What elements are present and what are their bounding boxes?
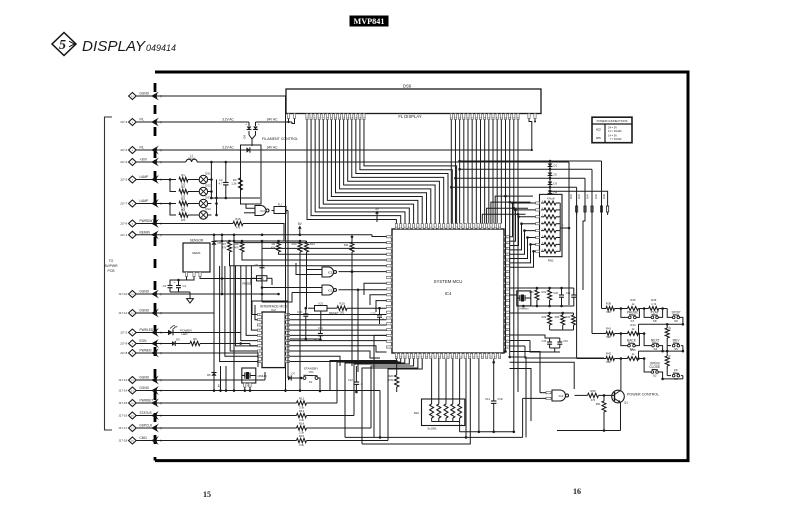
svg-text:93: 93 (390, 283, 392, 285)
svg-text:C16: C16 (563, 340, 568, 343)
resistor R14 3.3k DSPCLK (165, 359, 414, 435)
svg-text:0: 0 (390, 324, 391, 326)
svg-text:IC4: IC4 (445, 291, 452, 296)
lamp DS1 (199, 172, 211, 184)
svg-text:76: 76 (460, 227, 462, 229)
svg-text:47uF: 47uF (497, 398, 503, 401)
wire MCU right pin labels (0, 0, 1, 1)
svg-text:96: 96 (390, 300, 392, 302)
svg-text:65: 65 (413, 227, 415, 229)
svg-text:R38: R38 (606, 302, 612, 306)
connector J17-2 +30V (120, 158, 165, 167)
resistor R32 row2 (542, 313, 552, 330)
svg-text:24: 24 (447, 356, 449, 358)
svg-text:AN4: AN4 (587, 194, 590, 199)
svg-text:87: 87 (390, 248, 392, 250)
svg-text:C11: C11 (318, 326, 323, 330)
svg-text:64: 64 (408, 227, 410, 229)
svg-text:36: 36 (395, 356, 397, 358)
push button S6 FF (667, 369, 683, 382)
svg-text:1.7k: 1.7k (651, 302, 657, 306)
wire row2 rails (510, 312, 574, 330)
svg-text:79: 79 (473, 227, 475, 229)
svg-text:TO: TO (109, 259, 114, 263)
power rail 5V arrow near REMIN (298, 222, 303, 235)
svg-text:C14: C14 (485, 397, 490, 401)
svg-text:66: 66 (417, 227, 419, 229)
svg-text:AN6: AN6 (603, 194, 606, 199)
svg-text:J17-10: J17-10 (118, 292, 127, 296)
svg-text:18: 18 (473, 356, 475, 358)
svg-text:22: 22 (456, 356, 458, 358)
wire xtal area verticals (218, 366, 235, 392)
connector J17-16 STATUS (118, 411, 165, 420)
push button S3 BACK (621, 334, 640, 352)
svg-text:RN1: RN1 (548, 259, 554, 263)
svg-text:R50: R50 (590, 389, 596, 393)
capacitor C21 (566, 288, 576, 306)
svg-text:80: 80 (477, 227, 479, 229)
logic gate IC3 filament (244, 204, 274, 216)
svg-text:2: 2 (390, 335, 391, 337)
wire anode rows to diode ladder (451, 168, 592, 215)
svg-text:J17-16: J17-16 (118, 414, 127, 418)
svg-text:FILAMENT CONTROL: FILAMENT CONTROL (262, 137, 298, 141)
svg-text:R12: R12 (299, 397, 305, 401)
crystal X2 4MHz (510, 291, 531, 311)
resistor R11 47k (344, 236, 354, 273)
connector J17-12 DGND (118, 309, 214, 318)
svg-text:(): () (160, 148, 162, 152)
svg-text:D6: D6 (207, 373, 211, 377)
wire AN bundle verticals to keys (577, 212, 608, 359)
svg-text:J17-8: J17-8 (120, 351, 128, 355)
board frame border (155, 72, 688, 461)
svg-text:17: 17 (477, 356, 479, 358)
resistor R19 300 (327, 302, 387, 315)
svg-text:83: 83 (490, 227, 492, 229)
svg-text:J17-6: J17-6 (120, 222, 128, 226)
svg-text:68k: 68k (606, 310, 611, 314)
wire FIL upper 3.2V AC (165, 117, 249, 122)
svg-text:DS1: DS1 (205, 172, 211, 176)
wire upper junction rail y241 (214, 240, 307, 243)
wire IC2 left pin nest (220, 266, 288, 361)
svg-text:94: 94 (390, 289, 392, 291)
svg-text:(): () (160, 233, 162, 237)
resistor network RN1 47kx8 (536, 194, 570, 262)
svg-text:C5: C5 (255, 263, 259, 267)
wire 34V AC to display filament left (256, 117, 295, 123)
resistor R3 220 (179, 197, 199, 211)
svg-text:MVP841: MVP841 (354, 17, 385, 26)
resistor R31 column (542, 288, 552, 306)
svg-text:7 = DGND: 7 = DGND (610, 137, 622, 141)
svg-text:049414: 049414 (146, 43, 176, 53)
svg-text:FF: FF (674, 369, 678, 373)
svg-text:IC3: IC3 (328, 289, 333, 293)
power connections table (592, 117, 632, 143)
resistor R12b 3.3k PWRDET (165, 359, 401, 410)
svg-text:R34: R34 (566, 316, 571, 319)
svg-text:12: 12 (499, 356, 501, 358)
svg-text:R1: R1 (181, 173, 185, 177)
svg-text:20: 20 (464, 356, 466, 358)
svg-text:16: 16 (481, 356, 483, 358)
connector J17-18 CMD (118, 436, 165, 445)
svg-text:FIL: FIL (140, 146, 145, 150)
svg-text:35: 35 (400, 356, 402, 358)
wire MCU bottom left nest (330, 335, 418, 444)
wire MCU right to RN1 staircase (510, 202, 536, 268)
FL display filament pins right (528, 114, 536, 119)
wire FL right bus jogs to MCU top pins (482, 195, 533, 224)
capacitor C2 4.7uF (219, 161, 229, 200)
wire key row3 return (661, 378, 683, 381)
svg-text:R32: R32 (542, 316, 547, 319)
svg-text:R40: R40 (630, 298, 636, 302)
svg-text:DS2: DS2 (205, 184, 211, 188)
svg-text:R45: R45 (630, 348, 636, 352)
svg-text:15: 15 (486, 356, 488, 358)
wire DGND top rail (165, 96, 286, 392)
svg-text:SYSTEM MCU: SYSTEM MCU (434, 279, 463, 284)
svg-text:IC3: IC3 (260, 209, 265, 213)
svg-text:R31: R31 (542, 291, 547, 294)
svg-text:AN2: AN2 (570, 194, 573, 199)
svg-text:72: 72 (443, 227, 445, 229)
resistor R5 100 (190, 337, 258, 346)
svg-text:29: 29 (425, 356, 427, 358)
svg-text:J17-17: J17-17 (118, 426, 127, 430)
title DISPLAY 049414 (82, 38, 176, 55)
svg-text:1: 1 (390, 329, 391, 331)
wire LAMP branch lower (165, 202, 176, 215)
resistor R15 3.3k CMD (165, 359, 422, 448)
svg-text:IC3: IC3 (559, 394, 564, 398)
capacitor C15 (542, 338, 552, 348)
wire IC2 pin13 row (290, 360, 398, 363)
svg-text:89: 89 (390, 260, 392, 262)
interface MCU IC2 (258, 304, 290, 367)
FL display filament pins left (287, 114, 295, 119)
capacitor C11 (314, 326, 323, 342)
svg-text:IC2: IC2 (596, 128, 601, 132)
ground symbol sensor (170, 292, 193, 303)
diode D1 (548, 160, 558, 168)
resistor R30 column (529, 288, 539, 306)
svg-text:D7: D7 (292, 372, 296, 376)
wire PWRDWT row with resistor R16 (165, 217, 284, 241)
svg-text:DGND: DGND (140, 376, 150, 380)
system MCU IC4 (387, 224, 510, 359)
inductor L1 18UH (186, 154, 197, 163)
resistor R9 47k (271, 241, 281, 254)
svg-text:R47: R47 (669, 354, 672, 359)
svg-text:J17-9: J17-9 (120, 342, 128, 346)
resistor R34 row2 (566, 313, 576, 330)
lamp DS2 (199, 184, 211, 196)
lamp DS3 (199, 196, 211, 208)
connector J17-1 REMIN (120, 230, 165, 239)
lamp DS4 (199, 207, 211, 219)
capacitor C20 (553, 288, 564, 306)
switch S1 STANDBY ON (300, 367, 320, 392)
svg-text:95: 95 (390, 295, 392, 297)
svg-text:BACK: BACK (627, 339, 637, 343)
svg-text:S8: S8 (653, 319, 657, 323)
power LED (165, 325, 241, 336)
svg-text:(): () (160, 202, 162, 206)
filament control block outline (241, 145, 262, 204)
svg-text:+30V: +30V (140, 158, 148, 162)
svg-text:84: 84 (494, 227, 496, 229)
svg-text:R3: R3 (181, 197, 185, 201)
svg-text:R46: R46 (651, 298, 657, 302)
svg-text:PLAY: PLAY (651, 311, 660, 315)
svg-text:J17-18: J17-18 (118, 439, 127, 443)
capacitor C5 (255, 262, 265, 276)
svg-text:R39: R39 (669, 326, 672, 331)
svg-text:(): () (160, 311, 162, 315)
svg-text:IC2: IC2 (271, 308, 276, 312)
sheet number diamond 5 (52, 33, 76, 56)
FL display grid/segment pins left group (306, 114, 366, 120)
resistor R39 vertical (665, 324, 672, 351)
svg-text:S2: S2 (653, 374, 657, 378)
svg-text:470k: 470k (388, 379, 394, 382)
svg-text:J17-12: J17-12 (118, 311, 127, 315)
wire key row2 return (639, 350, 685, 359)
diode D2 (548, 167, 558, 177)
resistor network RN2 5x100k (414, 399, 465, 432)
svg-text:POWER CONTROL: POWER CONTROL (627, 393, 659, 397)
svg-text:67: 67 (421, 227, 423, 229)
wire IC2 right pins to system MCU rows (290, 315, 387, 367)
wire +30V rail (165, 162, 570, 305)
diode D3 (548, 176, 558, 186)
svg-text:3.2V AC: 3.2V AC (222, 117, 234, 121)
svg-text:IC3: IC3 (328, 271, 333, 275)
svg-text:5: 5 (59, 38, 66, 53)
connector J17-5 LAMP (120, 175, 165, 184)
svg-text:R51: R51 (596, 402, 601, 406)
svg-text:61: 61 (395, 227, 397, 229)
svg-text:J17-5: J17-5 (120, 178, 128, 182)
svg-text:R42: R42 (606, 352, 612, 356)
svg-text:AN3: AN3 (578, 194, 581, 199)
push button S2 OPEN/CLOSE (644, 359, 663, 379)
svg-text:+: + (258, 122, 260, 126)
push button S5 REV (667, 339, 683, 352)
wire sensor bus verticals (221, 235, 262, 392)
svg-text:(): () (160, 401, 162, 405)
wire IC2 area crossings (290, 338, 321, 341)
transistor filament control driver (243, 122, 299, 146)
svg-text:+: + (245, 122, 247, 126)
svg-text:3.3k: 3.3k (299, 443, 305, 447)
diode D4 (548, 185, 558, 195)
connector J17-8 PWREN (120, 349, 165, 358)
svg-text:(): () (160, 439, 162, 443)
wire bus FL display left group to MCU (307, 120, 457, 224)
svg-text:82: 82 (486, 227, 488, 229)
svg-text:31: 31 (417, 356, 419, 358)
svg-text:C12: C12 (348, 378, 353, 382)
wire sensor leads (170, 277, 222, 284)
svg-text:IC6: IC6 (319, 301, 324, 305)
wire LAMP branch upper (165, 178, 176, 191)
svg-text:RESET: RESET (329, 311, 339, 315)
svg-text:90: 90 (390, 266, 392, 268)
page title block MVP841 (350, 16, 389, 27)
key row 3 resistors R42 R45 (577, 348, 646, 364)
svg-text:80k: 80k (606, 335, 611, 339)
push button S7 PAUSE (621, 309, 640, 324)
svg-text:470: 470 (591, 398, 596, 402)
svg-text:4: 4 (390, 347, 391, 349)
wire reset to gates (222, 279, 262, 303)
svg-text:J17-13: J17-13 (118, 378, 127, 382)
svg-text:EON: EON (140, 339, 148, 343)
svg-text:CLOSE: CLOSE (649, 365, 660, 369)
svg-text:23: 23 (451, 356, 453, 358)
wire MCU left pin horizontals (230, 241, 387, 312)
wire PWREN row (165, 353, 258, 367)
svg-text:C13: C13 (371, 312, 376, 316)
svg-text:REMIN: REMIN (140, 230, 151, 234)
resistor R1 220 (179, 173, 199, 187)
connector J17-4 FIL (120, 146, 165, 155)
resistor R51 47k (596, 394, 606, 432)
resistor R33 row2 (555, 313, 565, 330)
svg-text:ON: ON (309, 370, 314, 374)
svg-text:D3: D3 (554, 182, 558, 186)
connector J17-9 EON (120, 339, 165, 348)
wire key row1 return (639, 323, 685, 334)
wire lamp return bus (210, 161, 260, 217)
svg-text:(): () (160, 331, 162, 335)
svg-text:REM1: REM1 (192, 251, 201, 255)
svg-text:PWRDWT: PWRDWT (140, 219, 155, 223)
resistor R6 1.2k in filament block (231, 170, 242, 197)
svg-text:NEXT: NEXT (651, 339, 660, 343)
svg-text:DS4: DS4 (205, 207, 211, 211)
svg-text:16: 16 (573, 487, 581, 496)
svg-text:STATUS: STATUS (140, 411, 152, 415)
svg-text:34: 34 (404, 356, 406, 358)
svg-text:88: 88 (390, 254, 392, 256)
svg-text:C15: C15 (542, 340, 547, 343)
svg-text:LAMP: LAMP (140, 175, 149, 179)
svg-text:DS6: DS6 (403, 84, 412, 89)
svg-text:PCB: PCB (108, 269, 116, 273)
wire MCU right long horizontals (510, 352, 575, 438)
svg-text:R11: R11 (344, 243, 349, 247)
svg-text:R22: R22 (414, 411, 420, 415)
connector J17-15 PWRDET (118, 399, 165, 408)
svg-text:470: 470 (236, 226, 241, 230)
svg-text:34V AC: 34V AC (267, 117, 279, 121)
svg-text:J17-3: J17-3 (120, 120, 128, 124)
svg-text:R13: R13 (299, 409, 305, 413)
wire MCU bottom to RN2 (432, 359, 460, 400)
svg-text:68: 68 (425, 227, 427, 229)
svg-text:R16: R16 (235, 217, 241, 221)
wire gate input feeds (261, 263, 314, 302)
svg-text:77: 77 (464, 227, 466, 229)
wire power control rails (557, 430, 621, 432)
svg-text:PWREN: PWREN (140, 349, 153, 353)
bracket TO AV/PWR PCB (104, 117, 118, 430)
svg-text:98: 98 (390, 312, 392, 314)
svg-text:C10: C10 (297, 310, 302, 314)
svg-text:70: 70 (434, 227, 436, 229)
svg-text:13: 13 (494, 356, 496, 358)
key row 2 resistors R41 R44 (592, 323, 645, 339)
reset IC1 (242, 276, 272, 286)
svg-text:FL1: FL1 (278, 204, 283, 207)
svg-text:47kx8: 47kx8 (547, 197, 555, 201)
connector J17-6 PWRDWT (120, 219, 165, 228)
svg-text:81: 81 (481, 227, 483, 229)
svg-text:(): () (160, 351, 162, 355)
vacuum fluorescent display DS6 (286, 84, 541, 119)
svg-text:J17-2: J17-2 (120, 160, 128, 164)
svg-text:(): () (160, 414, 162, 418)
svg-text:(): () (160, 389, 162, 393)
diode D5 (211, 235, 221, 373)
svg-text:C20: C20 (553, 292, 558, 295)
svg-text:PAUSE: PAUSE (627, 311, 639, 315)
svg-text:33: 33 (408, 356, 410, 358)
resistor R7 47k (222, 241, 232, 266)
svg-text:AN5: AN5 (595, 194, 598, 199)
wire MCU bottom rails right (345, 359, 523, 445)
capacitor C12 (348, 366, 363, 393)
svg-text:80k: 80k (606, 360, 611, 364)
crystal X1 4MHz (242, 368, 267, 392)
wire AN sense bundle (570, 194, 609, 212)
svg-text:CMD: CMD (140, 436, 148, 440)
wire bus FL display right group (450, 120, 518, 434)
capacitor C10 (297, 307, 308, 339)
svg-text:78: 78 (468, 227, 470, 229)
svg-text:91: 91 (390, 271, 392, 273)
wire key matrix to Q1 collector (620, 359, 622, 391)
svg-text:J17-2: J17-2 (120, 331, 128, 335)
svg-text:62: 62 (400, 227, 402, 229)
svg-text:S1: S1 (309, 380, 313, 384)
wire REMIN row (165, 234, 387, 237)
push button S8 PLAY (644, 307, 664, 323)
svg-text:C21: C21 (566, 292, 571, 295)
svg-text:30: 30 (421, 356, 423, 358)
svg-text:75: 75 (456, 227, 458, 229)
svg-text:(): () (160, 160, 162, 164)
wire DGND row 380 (165, 372, 265, 380)
resistor R47 vertical (665, 351, 672, 372)
svg-text:27: 27 (434, 356, 436, 358)
resistor R20 470k (388, 362, 399, 393)
svg-text:IC5: IC5 (596, 136, 601, 140)
svg-text:PWRDET: PWRDET (140, 399, 154, 403)
svg-text:(): () (160, 292, 162, 296)
svg-text:69: 69 (430, 227, 432, 229)
wire X2 area rails (510, 287, 574, 308)
logic gate IC3 power (523, 390, 569, 401)
key row 1 feed resistors R38 R40 R46 (602, 298, 668, 314)
